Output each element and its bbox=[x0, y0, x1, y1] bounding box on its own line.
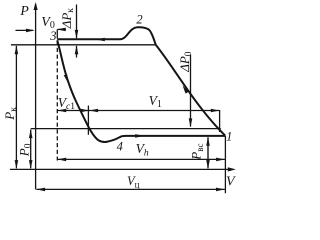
Vc (cylinder) dimension line bbox=[36, 188, 224, 190]
svg-text:V: V bbox=[226, 174, 236, 189]
dPk dimension line lower part bbox=[76, 46, 78, 58]
clearance volume boundary (solid tick above point 3) bbox=[56, 29, 58, 38]
V0 dimension right arrow bbox=[58, 28, 66, 30]
svg-text:3: 3 bbox=[49, 29, 56, 43]
Pk dimension line bbox=[15, 46, 17, 168]
compression direction arrow bbox=[181, 84, 189, 93]
P0 dimension line bbox=[30, 130, 32, 169]
expansion line 3-4 bbox=[57, 40, 126, 142]
V1 right extension line bbox=[219, 110, 221, 132]
P axis bbox=[35, 4, 37, 189]
svg-text:2: 2 bbox=[136, 12, 142, 26]
discharge direction arrow bbox=[96, 38, 105, 42]
nominal P0 pressure level thin line bbox=[31, 128, 221, 130]
point 1 extension line bbox=[224, 136, 226, 193]
Pvs (suction pressure) dimension line bbox=[207, 137, 209, 168]
compression line 1-2 bbox=[151, 32, 225, 135]
V0 dimension left arrow bbox=[16, 29, 34, 31]
nominal Pk pressure level thin line bbox=[11, 44, 156, 46]
dPk dimension line upper part bbox=[76, 5, 78, 39]
Vc1 extension line bbox=[87, 106, 89, 135]
discharge line 2-3 with valve-opening bump bbox=[57, 27, 151, 39]
Vh dimension line bbox=[58, 158, 225, 160]
V axis (baseline) bbox=[10, 168, 234, 170]
suction direction arrow bbox=[135, 134, 144, 138]
suction line 4-1 bbox=[126, 135, 225, 137]
dashed clearance line at V0 bbox=[56, 41, 58, 161]
dP0 dimension/extension line bbox=[190, 55, 192, 127]
expansion direction arrow bbox=[64, 74, 70, 83]
Vc1 / V1 chained dimension line bbox=[58, 110, 220, 112]
svg-text:P: P bbox=[19, 3, 29, 18]
svg-text:4: 4 bbox=[117, 140, 123, 154]
svg-text:1: 1 bbox=[226, 130, 232, 144]
